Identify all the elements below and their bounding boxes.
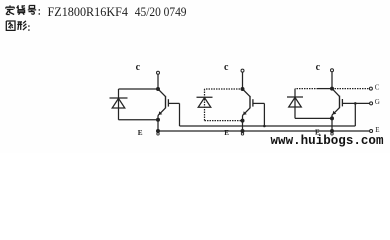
terminal circle e3 (under rail)	[331, 133, 333, 135]
wire: gate lead T3 to terminal G	[342, 102, 369, 104]
svg-text:E: E	[375, 126, 379, 134]
node: cell3 top junction	[330, 87, 334, 91]
svg-text:www.huibogs.com: www.huibogs.com	[271, 134, 384, 148]
colon after 图形	[28, 25, 29, 30]
diode D2 cathode lead (dashed)	[204, 89, 206, 121]
svg-text:45/20 0749: 45/20 0749	[135, 4, 187, 19]
transistor T2 gate bar	[252, 99, 254, 106]
wire: gate drop T2 to gate bus	[263, 103, 265, 126]
terminal circle e2 (under rail)	[241, 133, 243, 135]
svg-text:C: C	[375, 83, 380, 91]
svg-text:E: E	[224, 129, 229, 137]
wire: top rail to diode D1	[119, 88, 159, 90]
node: cell2 on emitter rail	[241, 129, 245, 133]
svg-text:FZ1800R16KF4: FZ1800R16KF4	[48, 4, 129, 19]
node: gate bus tee cell2	[263, 125, 266, 128]
node: cell1 on emitter rail	[156, 129, 160, 133]
wire: gate lead T1	[168, 102, 179, 104]
transistor T1 body bar	[165, 96, 167, 108]
terminal circle E (right)	[370, 130, 373, 133]
wire: gate drop T1 to gate bus	[179, 103, 181, 126]
transistor T2 collector slant	[243, 89, 251, 97]
wire: emitter stub cell3	[331, 118, 333, 131]
transistor T3 emitter with arrow	[333, 108, 340, 115]
terminal circle C2	[241, 69, 244, 72]
transistor T3 body bar	[339, 96, 341, 108]
transistor T2 emitter with arrow	[244, 108, 251, 115]
terminal circle e1 (under rail)	[157, 133, 159, 135]
diode D2 (free-wheel)	[197, 97, 213, 107]
node: cell3 on emitter rail	[330, 129, 334, 133]
svg-text:c: c	[224, 62, 229, 73]
wire: collector link to terminal C (dashed)	[332, 88, 370, 90]
diode D1 cathode lead	[118, 89, 120, 120]
heading label 图形： (hand-drawn hanzi "figure")	[6, 21, 29, 31]
terminal circle G (right)	[370, 102, 373, 105]
wire: C2 terminal to top node	[242, 72, 244, 89]
wire: C3 terminal to top node	[331, 72, 333, 89]
wire: cell2 bottom wire (dashed)	[205, 120, 243, 122]
svg-text:E: E	[138, 129, 143, 137]
transistor T1 gate bar	[167, 99, 169, 106]
wire: emitter rail	[158, 130, 370, 132]
wire: emitter stub cell1	[157, 120, 159, 131]
diode D3 (free-wheel)	[287, 97, 303, 107]
svg-text:G: G	[375, 98, 380, 106]
wire: gate bus	[180, 125, 356, 127]
terminal circle C3	[331, 69, 334, 72]
node: cell2 bottom junction	[241, 119, 245, 123]
diode D1 (free-wheel)	[110, 98, 128, 108]
node: cell2 top junction	[241, 87, 245, 91]
heading label 定货号： (hand-drawn hanzi "order no.")	[6, 5, 40, 15]
transistor T1 emitter with arrow	[159, 108, 166, 115]
transistor T3 gate bar	[341, 99, 343, 106]
wire: top rail to diode D3 (part dashed)	[295, 88, 318, 90]
wire: cell3 bottom wire	[295, 117, 332, 119]
node: cell1 top junction	[156, 87, 160, 91]
wire: C1 terminal to top node	[157, 74, 159, 89]
node: cell3 bottom junction	[330, 116, 334, 120]
svg-text:c: c	[136, 62, 141, 73]
terminal circle C (right)	[369, 87, 372, 90]
diode D3 cathode lead	[294, 89, 296, 119]
wire: emitter stub cell2	[242, 121, 244, 131]
wire: dashed top rail to diode D2	[205, 88, 243, 90]
transistor T3 collector slant	[332, 89, 340, 97]
colon after 定货号	[39, 9, 40, 14]
transistor T1 collector slant	[158, 89, 166, 97]
wire: cell1 bottom wire diode to emitter	[119, 119, 159, 121]
svg-text:c: c	[316, 62, 321, 73]
transistor T2 body bar	[249, 96, 251, 108]
node: cell1 bottom junction	[156, 118, 160, 122]
wire: gate lead T2	[253, 102, 265, 104]
wire: gate drop T3 to gate bus	[354, 103, 356, 126]
terminal circle C1	[157, 71, 160, 74]
node: gate tee at drop	[354, 102, 357, 105]
